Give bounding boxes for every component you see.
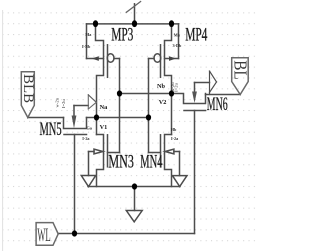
svg-text:MN5: MN5 — [40, 119, 62, 140]
svg-text:MN3: MN3 — [108, 152, 133, 172]
svg-text:Na: Na — [100, 104, 109, 111]
svg-text:MN6: MN6 — [207, 95, 228, 115]
svg-text:I=2u: I=2u — [61, 99, 66, 108]
svg-text:BLB: BLB — [20, 74, 36, 103]
svg-text:MP4: MP4 — [185, 25, 207, 46]
svg-text:I-Nb: I-Nb — [82, 44, 91, 49]
svg-text:Ga: Ga — [87, 125, 93, 130]
svg-text:MN4: MN4 — [140, 151, 162, 172]
svg-text:MP3: MP3 — [111, 25, 133, 46]
svg-text:V2: V2 — [159, 99, 167, 106]
svg-text:WL: WL — [37, 226, 51, 246]
svg-text:Hb: Hb — [171, 127, 177, 132]
svg-text:Ma: Ma — [85, 32, 92, 37]
svg-text:3-Db: 3-Db — [173, 43, 183, 48]
svg-text:w-2u: w-2u — [55, 97, 60, 107]
svg-text:I=2u: I=2u — [174, 82, 179, 91]
svg-text:Nb: Nb — [157, 83, 166, 90]
svg-text:Ma: Ma — [174, 33, 181, 38]
svg-text:BL: BL — [230, 60, 250, 80]
svg-text:I-2a: I-2a — [82, 136, 90, 141]
svg-text:V1: V1 — [100, 124, 108, 131]
svg-text:I-2a: I-2a — [171, 136, 179, 141]
